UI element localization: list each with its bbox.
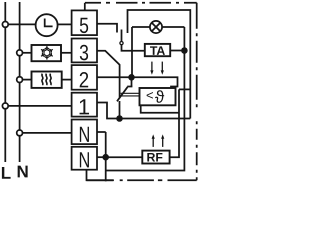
wire RF left [106, 156, 143, 158]
wire pivot to TA box [122, 45, 146, 51]
wire lamp right [162, 26, 184, 28]
svg-text:ϑ: ϑ [155, 88, 165, 107]
terminal 1 [72, 93, 97, 117]
terminal 2 [72, 65, 97, 90]
wire bridge to RF riser [179, 88, 190, 90]
node N-cooling tap [17, 50, 23, 56]
wire TA contact B loop [128, 10, 191, 119]
junction lamp-thermostat [129, 75, 134, 80]
cooling box [32, 45, 62, 61]
junction common [117, 116, 122, 121]
wire L supply vertical [4, 2, 6, 162]
sensor box [140, 88, 176, 105]
wire cooling row [23, 52, 32, 54]
boundary dash-dot bottom [87, 179, 197, 181]
wire terminal2 row right [97, 77, 178, 88]
node N-N tap [17, 130, 23, 136]
svg-text:<: < [146, 88, 154, 103]
boundary dash-dot right [196, 3, 198, 181]
svg-text:L: L [1, 164, 11, 183]
svg-text:TA: TA [150, 44, 166, 58]
junction TA-lamp [182, 48, 187, 53]
TA switch lever [121, 30, 123, 42]
svg-text:1: 1 [78, 94, 90, 119]
node L-clock tap [2, 22, 8, 28]
wire terminal5 to TA contact A [97, 24, 117, 33]
wire TA box to junction [170, 50, 184, 52]
wire RF riser [170, 89, 179, 157]
svg-text:N: N [17, 162, 29, 181]
terminal 3 [72, 39, 97, 63]
wire lamp left [132, 26, 150, 28]
wire N tie vertical [105, 132, 107, 181]
wire terminal1 row [8, 105, 72, 107]
wire terminal1 pin [97, 103, 120, 119]
thermostat lever [117, 87, 128, 101]
node L-1 tap [2, 103, 8, 109]
terminal N lower [72, 147, 97, 170]
snowflake icon [41, 46, 53, 60]
arrows RF up [153, 138, 163, 147]
thermostat contact upper [131, 77, 133, 86]
wire heating row [23, 79, 32, 81]
junction N-RF [103, 155, 108, 160]
svg-text:N: N [79, 147, 91, 172]
node N-heating tap [17, 77, 23, 83]
svg-text:5: 5 [79, 13, 89, 38]
wire long right drop [106, 27, 185, 171]
wire terminalN bottom tab [87, 170, 114, 181]
wire common row [120, 118, 191, 120]
heating wavy icon [42, 74, 51, 85]
wire clock row [8, 23, 36, 25]
linkage thermostat-sensor [121, 93, 140, 96]
svg-text:N: N [79, 122, 91, 147]
relay TA box [145, 44, 170, 56]
lamp symbol [150, 21, 162, 33]
wire lamp drop [131, 27, 133, 77]
boundary dash-dot top [85, 2, 197, 4]
wire terminalN row [23, 132, 73, 134]
wire terminal3 to thermostat contact [97, 51, 120, 98]
wire sensor bottom pin [141, 105, 179, 113]
clock symbol [36, 14, 58, 36]
TA switch pivot [120, 42, 123, 45]
arrows TA down [152, 62, 162, 71]
wire terminalN2 pin [97, 156, 106, 158]
svg-text:2: 2 [79, 67, 89, 92]
wire terminal5 top to frame [84, 3, 86, 11]
wire terminalN1 pin [97, 131, 106, 133]
sensor RF box [142, 151, 169, 164]
wire N supply vertical [19, 2, 21, 162]
terminal 5 [72, 10, 97, 35]
svg-text:RF: RF [147, 150, 164, 164]
wire thermostat pivot [119, 101, 121, 119]
heating box [32, 72, 62, 88]
terminal N upper [72, 120, 97, 145]
svg-text:3: 3 [79, 40, 89, 65]
